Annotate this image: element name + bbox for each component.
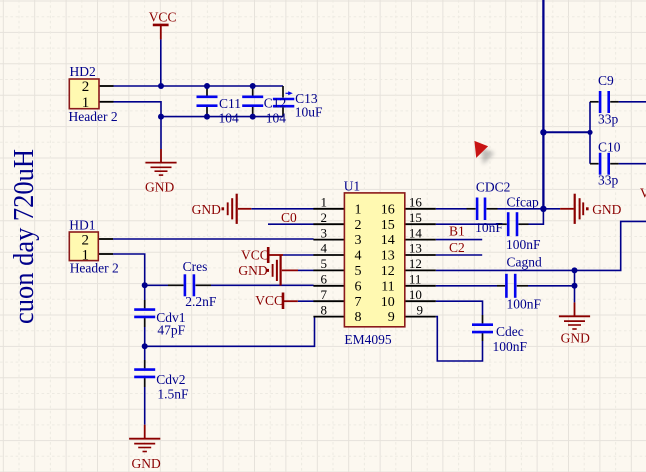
svg-text:C0: C0 — [281, 210, 297, 225]
svg-text:cuon day 720uH: cuon day 720uH — [8, 149, 40, 324]
svg-text:3: 3 — [355, 233, 362, 248]
svg-text:GND: GND — [132, 456, 161, 471]
svg-text:13: 13 — [409, 241, 422, 256]
svg-text:33p: 33p — [598, 111, 619, 126]
svg-text:4: 4 — [355, 249, 362, 264]
svg-text:12: 12 — [381, 264, 395, 279]
svg-text:104: 104 — [219, 110, 240, 125]
svg-text:GND: GND — [145, 180, 174, 195]
svg-text:VCC: VCC — [241, 247, 269, 262]
svg-text:C12: C12 — [264, 95, 287, 110]
svg-text:C9: C9 — [598, 73, 614, 88]
svg-text:5: 5 — [355, 264, 362, 279]
svg-text:6: 6 — [321, 272, 328, 287]
svg-text:9: 9 — [417, 302, 424, 317]
svg-text:3: 3 — [321, 225, 328, 240]
svg-text:GND: GND — [238, 263, 267, 278]
svg-text:C10: C10 — [598, 139, 621, 154]
svg-text:Header 2: Header 2 — [69, 109, 118, 124]
svg-text:1: 1 — [321, 195, 328, 210]
svg-text:U1: U1 — [344, 178, 361, 193]
svg-text:12: 12 — [409, 256, 422, 271]
svg-text:33p: 33p — [598, 173, 619, 188]
svg-text:8: 8 — [321, 302, 328, 317]
svg-text:11: 11 — [409, 272, 422, 287]
svg-text:100nF: 100nF — [507, 296, 542, 311]
svg-text:2: 2 — [82, 233, 90, 249]
svg-text:104: 104 — [266, 110, 287, 125]
svg-text:10: 10 — [409, 287, 422, 302]
svg-text:6: 6 — [355, 279, 362, 294]
svg-text:13: 13 — [381, 249, 395, 264]
svg-text:10uF: 10uF — [295, 105, 323, 120]
svg-text:16: 16 — [381, 202, 395, 217]
svg-text:10nF: 10nF — [475, 220, 503, 235]
svg-text:10: 10 — [381, 295, 395, 310]
svg-text:2: 2 — [355, 218, 362, 233]
svg-text:GND: GND — [192, 202, 221, 217]
svg-text:C11: C11 — [219, 96, 241, 111]
svg-text:100nF: 100nF — [506, 237, 541, 252]
svg-text:Cfcap: Cfcap — [507, 195, 539, 210]
svg-text:1: 1 — [82, 247, 90, 263]
svg-text:C2: C2 — [449, 240, 465, 255]
svg-text:15: 15 — [381, 218, 395, 233]
svg-text:HD1: HD1 — [69, 218, 95, 233]
svg-text:GND: GND — [592, 202, 621, 217]
svg-text:11: 11 — [381, 279, 394, 294]
svg-text:2: 2 — [321, 210, 328, 225]
svg-text:Cres: Cres — [183, 259, 208, 274]
svg-text:9: 9 — [388, 310, 395, 325]
svg-text:14: 14 — [409, 225, 423, 240]
svg-text:2.2nF: 2.2nF — [185, 294, 217, 309]
svg-text:15: 15 — [409, 210, 422, 225]
svg-text:CDC2: CDC2 — [476, 179, 511, 194]
svg-text:100nF: 100nF — [493, 339, 528, 354]
svg-text:VD: VD — [640, 185, 646, 200]
svg-text:1: 1 — [355, 202, 362, 217]
svg-text:VCC: VCC — [255, 293, 283, 308]
svg-text:HD2: HD2 — [70, 64, 96, 79]
svg-text:47pF: 47pF — [157, 322, 185, 337]
svg-text:Cagnd: Cagnd — [507, 254, 542, 269]
svg-text:EM4095: EM4095 — [344, 332, 392, 347]
svg-text:5: 5 — [321, 256, 328, 271]
svg-text:7: 7 — [355, 295, 362, 310]
svg-text:7: 7 — [321, 287, 328, 302]
svg-text:2: 2 — [82, 79, 90, 95]
svg-text:Cdv2: Cdv2 — [156, 372, 185, 387]
svg-text:Header 2: Header 2 — [70, 261, 119, 276]
svg-text:GND: GND — [561, 331, 590, 346]
svg-text:VCC: VCC — [149, 10, 177, 25]
svg-text:16: 16 — [409, 195, 423, 210]
svg-text:B1: B1 — [449, 223, 465, 238]
svg-text:14: 14 — [381, 233, 395, 248]
svg-text:1.5nF: 1.5nF — [157, 387, 189, 402]
svg-text:Cdec: Cdec — [496, 324, 524, 339]
svg-text:1: 1 — [82, 95, 90, 111]
svg-text:8: 8 — [355, 310, 362, 325]
svg-text:4: 4 — [321, 241, 328, 256]
